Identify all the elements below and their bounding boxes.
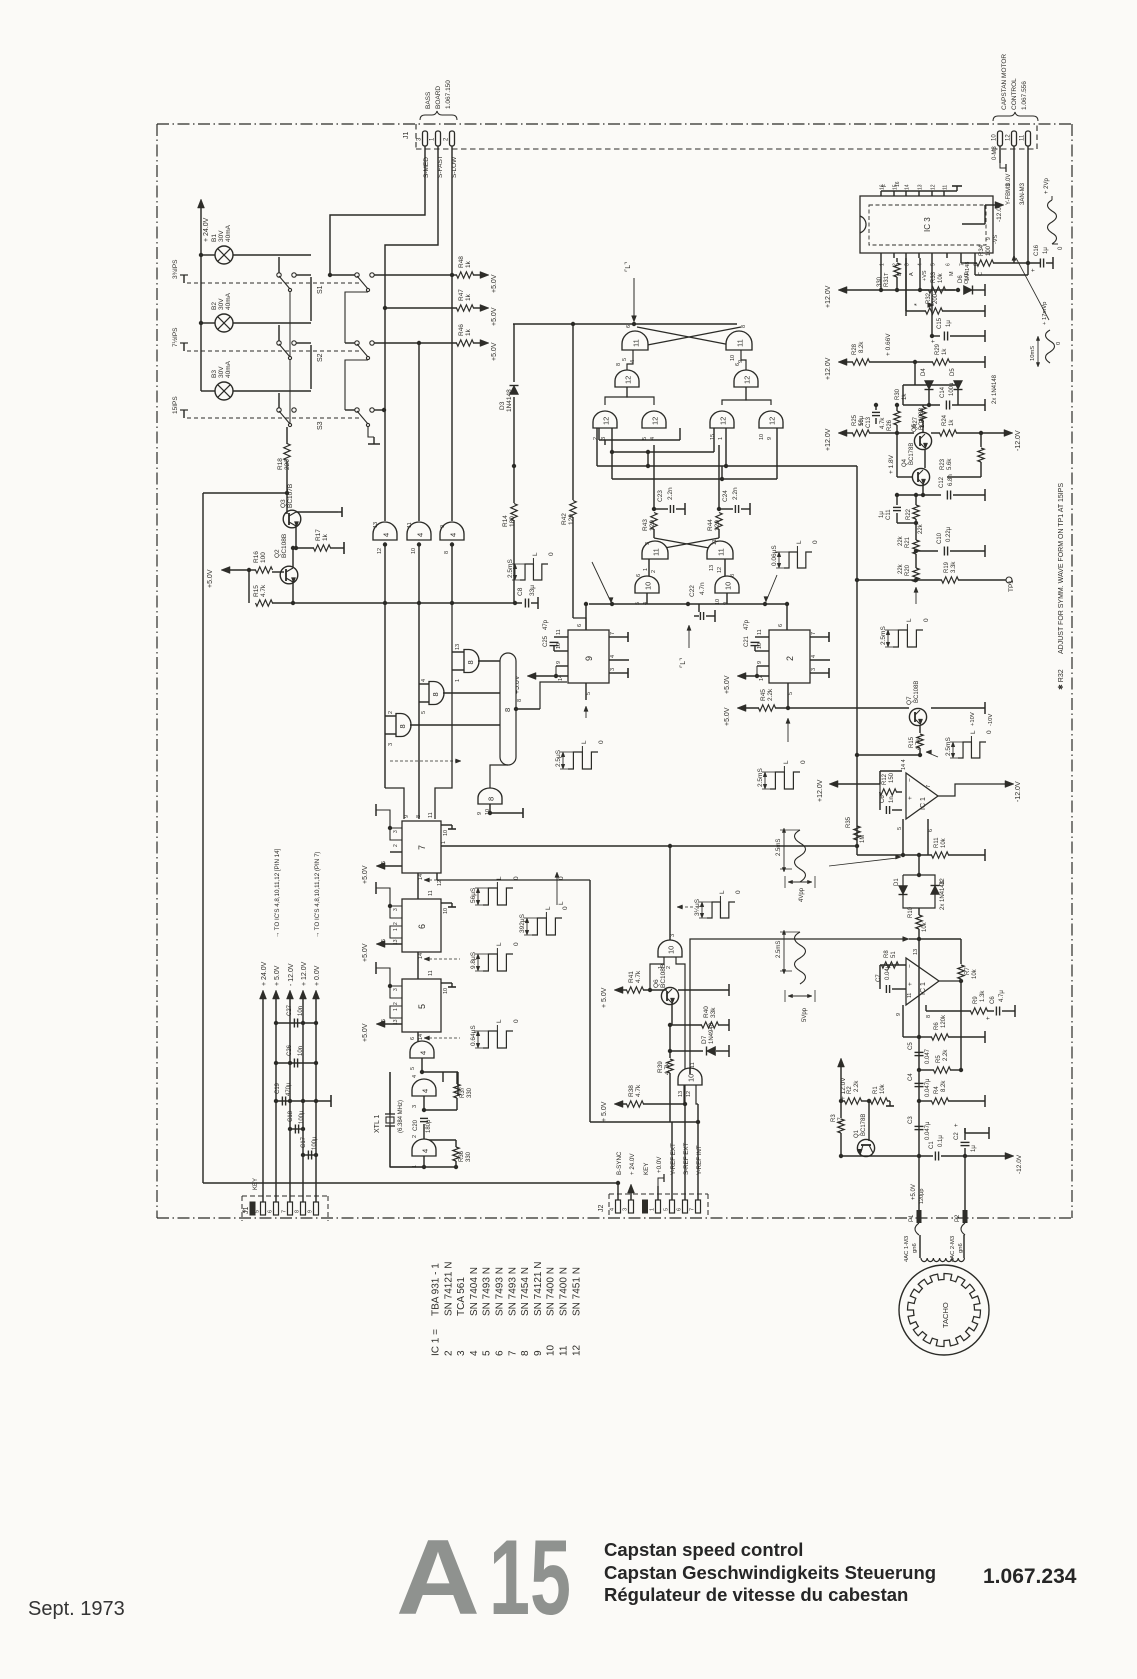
annotation arrow from sine xyxy=(829,858,897,866)
rail crossconnect C26 10n xyxy=(276,1062,316,1064)
capacitor C16 1u xyxy=(1039,259,1041,268)
bottom circuit rail xyxy=(203,1182,618,1184)
svg-text:Régulateur de vitesse du cabes: Régulateur de vitesse du cabestan xyxy=(604,1584,908,1605)
svg-text:Q3: Q3 xyxy=(280,499,287,508)
mesh wire h1 xyxy=(598,428,600,440)
svg-text:11: 11 xyxy=(652,548,661,556)
gate IC8b xyxy=(419,683,429,685)
R3 47 xyxy=(840,1101,842,1118)
cross-coupled NAND pair IC11 xyxy=(622,331,648,350)
wire J1-1 S-FAST xyxy=(385,146,438,521)
svg-text:4AC 1-M3: 4AC 1-M3 xyxy=(904,1236,910,1262)
opamp input wires down xyxy=(902,819,904,855)
gate inputs xyxy=(683,1085,685,1104)
svg-text:L: L xyxy=(545,906,552,910)
svg-text:R24: R24 xyxy=(942,414,948,426)
waveform 56uS xyxy=(483,888,513,905)
svg-text:⌜L⌝: ⌜L⌝ xyxy=(679,658,687,668)
svg-text:6: 6 xyxy=(417,924,427,929)
svg-text:10: 10 xyxy=(667,946,676,954)
svg-text:1.067.234: 1.067.234 xyxy=(983,1565,1077,1588)
svg-text:C13: C13 xyxy=(866,416,872,428)
svg-text:0.64μS: 0.64μS xyxy=(470,1025,477,1046)
svg-text:1k: 1k xyxy=(465,328,472,336)
IC2 pin6 top xyxy=(786,604,788,630)
svg-text:J1: J1 xyxy=(403,132,410,140)
IC7 pin14 bottom xyxy=(417,873,419,880)
R22 22k xyxy=(913,505,919,519)
svg-text:2: 2 xyxy=(443,1350,454,1356)
svg-text:R21: R21 xyxy=(905,536,911,548)
svg-text:BC108B: BC108B xyxy=(660,964,667,988)
svg-text:180p: 180p xyxy=(426,1119,432,1133)
capacitor C23 2.2n xyxy=(653,445,655,509)
svg-text:BC108B: BC108B xyxy=(281,534,288,558)
svg-text:4: 4 xyxy=(416,533,425,537)
svg-text:D4: D4 xyxy=(921,368,927,376)
svg-text:(6.384 MHz): (6.384 MHz) xyxy=(398,1100,404,1133)
IC7 pin1 long wire right xyxy=(441,845,857,847)
IC7 pin12 bottom right xyxy=(436,873,438,880)
IC5 SN7493 xyxy=(402,979,441,1032)
svg-text:1k: 1k xyxy=(465,293,472,301)
svg-text:40mA: 40mA xyxy=(225,360,232,378)
svg-text:+ 2Vp: + 2Vp xyxy=(1044,177,1050,194)
svg-text:120: 120 xyxy=(568,514,575,525)
svg-text:8: 8 xyxy=(520,1350,531,1356)
svg-text:12: 12 xyxy=(651,417,660,425)
wire gate4b output down xyxy=(418,605,420,819)
svg-text:100μ: 100μ xyxy=(299,1110,305,1124)
2.5mS pulse sketch left xyxy=(520,564,548,580)
svg-text:C27: C27 xyxy=(287,1004,293,1016)
dashed annotation arrow xyxy=(390,760,456,762)
svg-text:22k: 22k xyxy=(898,563,904,574)
svg-text:4: 4 xyxy=(412,1075,418,1078)
svg-text:5: 5 xyxy=(255,1210,261,1213)
svg-text:9: 9 xyxy=(477,812,483,815)
svg-text:4.7k: 4.7k xyxy=(880,417,886,429)
svg-text:4.7k: 4.7k xyxy=(916,738,922,750)
lower rail xyxy=(589,603,787,605)
svg-text:⌜L⌝: ⌜L⌝ xyxy=(624,262,632,272)
svg-text:8: 8 xyxy=(295,1210,301,1213)
wire P2 xyxy=(964,1156,966,1210)
svg-text:3.3k: 3.3k xyxy=(951,561,957,573)
gate in/out wires xyxy=(650,957,664,990)
svg-text:14: 14 xyxy=(418,953,424,959)
svg-text:R29: R29 xyxy=(935,343,941,355)
svg-text:13: 13 xyxy=(678,1091,684,1097)
svg-text:+ 24.0V: + 24.0V xyxy=(629,1153,636,1175)
svg-text:ADJUST FOR SYMM. WAVE FORM ON: ADJUST FOR SYMM. WAVE FORM ON TP1 AT 15I… xyxy=(1058,483,1065,654)
IC3 top pins to ground rail xyxy=(880,191,882,196)
svg-text:2: 2 xyxy=(593,437,599,440)
svg-text:6: 6 xyxy=(677,1208,683,1211)
svg-text:0.1μ: 0.1μ xyxy=(938,1135,944,1147)
wire P1 xyxy=(918,1156,920,1210)
svg-text:C23: C23 xyxy=(657,490,664,502)
svg-text:2: 2 xyxy=(388,711,394,714)
C1 0.1u series xyxy=(934,1152,936,1161)
svg-text:8: 8 xyxy=(444,551,450,554)
svg-text:12: 12 xyxy=(719,417,728,425)
svg-text:10: 10 xyxy=(757,643,763,649)
wire gate4c output down xyxy=(435,605,452,819)
R20 22k xyxy=(913,568,919,582)
+24.0V supply arrow xyxy=(200,205,202,255)
svg-text:11: 11 xyxy=(1020,134,1026,141)
svg-text:R17: R17 xyxy=(315,529,322,541)
svg-text:9: 9 xyxy=(404,815,410,818)
svg-text:4AC 2-M3: 4AC 2-M3 xyxy=(950,1236,956,1262)
svg-text:3: 3 xyxy=(811,668,817,671)
svg-text:C2: C2 xyxy=(954,1132,960,1140)
svg-text:R32: R32 xyxy=(926,292,932,304)
wire gate4a output down to IC8/IC7 xyxy=(384,605,386,788)
C10 0.22u row xyxy=(914,549,918,553)
svg-text:-12.0V: -12.0V xyxy=(1016,1154,1023,1174)
tacho pickup coil xyxy=(919,1235,921,1258)
svg-text:10: 10 xyxy=(992,134,998,141)
svg-text:L: L xyxy=(796,540,803,544)
Q3 collector to ground xyxy=(296,511,338,513)
svg-text:0.047μ: 0.047μ xyxy=(925,1078,931,1097)
R32 200 trimmer row xyxy=(905,258,907,311)
+12.0V arrow Q1 bias xyxy=(838,1058,845,1067)
R19 3.3k TP1 xyxy=(916,579,942,581)
svg-text:2x 1N4148: 2x 1N4148 xyxy=(992,374,998,404)
input wires xyxy=(902,1005,904,1011)
sine 2.5mS 5Vpp sketch xyxy=(795,932,806,984)
transistor Q3 BC107B xyxy=(286,493,288,514)
svg-text:Y-REF EXT: Y-REF EXT xyxy=(670,1143,677,1175)
svg-text:1k: 1k xyxy=(902,393,908,400)
svg-text:1: 1 xyxy=(455,679,461,682)
resistor R7 10k xyxy=(958,965,964,979)
diode D7 1N4948 xyxy=(669,1025,671,1051)
svg-text:L: L xyxy=(496,876,503,880)
svg-text:10n: 10n xyxy=(298,1046,304,1056)
osc bottom rail xyxy=(423,1156,425,1167)
svg-text:C3: C3 xyxy=(908,1116,914,1124)
svg-text:KEY: KEY xyxy=(253,1178,259,1190)
svg-text:9: 9 xyxy=(440,525,446,528)
svg-text:+ 5.0V: + 5.0V xyxy=(601,1101,608,1122)
svg-text:30V: 30V xyxy=(218,230,225,242)
svg-text:2.2n: 2.2n xyxy=(732,487,739,500)
gate IC4b pin 10/11 xyxy=(407,522,431,540)
svg-text:12: 12 xyxy=(1006,134,1012,141)
svg-text:A: A xyxy=(909,272,915,276)
fanout wires xyxy=(605,387,627,405)
svg-text:R45: R45 xyxy=(760,689,767,701)
svg-text:L: L xyxy=(496,1019,503,1023)
svg-text:+5.0V: +5.0V xyxy=(491,274,498,293)
IC2 right pins xyxy=(810,636,826,638)
svg-text:0: 0 xyxy=(923,618,930,622)
svg-text:10k: 10k xyxy=(941,837,947,848)
svg-text:→ TO IC'S 4,8,10,11,12 (PIN: → TO IC'S 4,8,10,11,12 (PIN 7) xyxy=(314,852,321,938)
svg-text:XTL 1: XTL 1 xyxy=(374,1114,381,1133)
svg-text:5: 5 xyxy=(482,1350,493,1356)
svg-text:S3: S3 xyxy=(317,421,324,430)
svg-text:SN 7400 N: SN 7400 N xyxy=(546,1267,557,1316)
svg-text:R16: R16 xyxy=(253,551,260,563)
svg-text:5: 5 xyxy=(410,1067,416,1070)
svg-text:C8: C8 xyxy=(517,587,524,596)
svg-text:gn6: gn6 xyxy=(958,1243,964,1253)
wire Q2 emitter rail xyxy=(272,602,522,604)
cross-coupled NAND pair IC11 lower xyxy=(642,541,668,559)
svg-text:12: 12 xyxy=(686,1091,692,1097)
svg-text:0: 0 xyxy=(548,552,555,556)
waveform arrow xyxy=(915,590,917,604)
svg-text:P2: P2 xyxy=(955,1214,961,1222)
svg-text:3: 3 xyxy=(412,1105,418,1108)
svg-text:F: F xyxy=(882,184,888,187)
svg-text:8: 8 xyxy=(517,699,523,702)
svg-text:100: 100 xyxy=(986,245,992,256)
svg-text:5: 5 xyxy=(421,711,427,714)
R24 1k to -12V xyxy=(931,432,940,434)
J2 signal labels xyxy=(617,1183,619,1200)
svg-text:R18: R18 xyxy=(277,458,284,470)
svg-text:SN 74121 N: SN 74121 N xyxy=(443,1262,454,1316)
svg-text:3: 3 xyxy=(456,1350,467,1356)
svg-text:SN 7451 N: SN 7451 N xyxy=(571,1267,582,1316)
svg-text:S-REF EXT: S-REF EXT xyxy=(683,1142,690,1175)
-12.0V arrow pin9 xyxy=(984,205,986,224)
svg-text:R19: R19 xyxy=(944,561,950,573)
svg-text:IC 1: IC 1 xyxy=(920,797,927,810)
svg-text:R26: R26 xyxy=(887,419,893,431)
svg-text:30V: 30V xyxy=(218,298,225,310)
svg-text:11: 11 xyxy=(907,993,913,998)
svg-text:1N4148: 1N4148 xyxy=(506,389,513,412)
svg-text:L: L xyxy=(719,890,726,894)
tacho gear wheel xyxy=(899,1265,989,1355)
svg-text:D3: D3 xyxy=(499,401,506,410)
C5 0.047 xyxy=(915,1051,924,1053)
svg-text:R44: R44 xyxy=(707,519,714,531)
lamp B3 30V 40mA xyxy=(215,382,233,400)
svg-text:R28: R28 xyxy=(852,343,858,355)
wire pin11 3AN-M3 xyxy=(1027,146,1029,263)
R29 1k row xyxy=(913,360,917,364)
svg-text:1: 1 xyxy=(393,1008,399,1011)
IC9 SN74121 xyxy=(568,630,609,683)
svg-text:+VS: +VS xyxy=(922,270,928,281)
gate IC10d xyxy=(678,1068,702,1085)
IC9 pin6 top xyxy=(585,604,587,630)
svg-text:1N4948: 1N4948 xyxy=(709,1022,715,1044)
IC7 pin5 +5V xyxy=(380,865,402,867)
connector J2 bottom xyxy=(609,1193,708,1195)
C14 100u row xyxy=(903,404,940,406)
svg-text:R41: R41 xyxy=(628,971,635,983)
svg-text:0: 0 xyxy=(812,540,819,544)
R23 5.6k xyxy=(979,431,983,435)
svg-text:Q2: Q2 xyxy=(274,549,281,558)
svg-text:R30: R30 xyxy=(895,388,901,400)
bass board dashed boundary xyxy=(416,148,1037,150)
svg-text:11: 11 xyxy=(717,548,726,556)
resistor R42 120 xyxy=(570,501,576,518)
svg-text:3: 3 xyxy=(670,934,676,937)
IC9 right pins xyxy=(609,636,625,638)
svg-text:Capstan speed control: Capstan speed control xyxy=(604,1539,803,1560)
svg-text:1μ: 1μ xyxy=(1043,247,1049,254)
wire to gate 11 pin xyxy=(418,343,420,521)
+5.0V arrow xyxy=(226,569,249,571)
svg-text:1M: 1M xyxy=(860,835,866,843)
switch S1 left half xyxy=(278,257,280,273)
svg-text:6: 6 xyxy=(946,263,952,266)
R27 1.5k xyxy=(920,407,926,421)
svg-text:1k: 1k xyxy=(949,419,955,426)
svg-text:+5.0V: +5.0V xyxy=(491,307,498,326)
sine 2.5mS 4Vpp sketch xyxy=(795,830,806,882)
IC3 package outline xyxy=(860,196,993,253)
svg-text:R15: R15 xyxy=(253,585,260,597)
gate IC8c xyxy=(452,651,464,653)
+5V rail with R45 xyxy=(737,705,746,712)
svg-text:R2: R2 xyxy=(847,1086,853,1094)
svg-text:-10V: -10V xyxy=(988,714,994,726)
transistor Q1 BC178B xyxy=(868,1101,870,1141)
svg-text:11: 11 xyxy=(736,339,745,347)
svg-text:+: + xyxy=(986,1016,992,1020)
svg-text:KEY: KEY xyxy=(643,1163,650,1175)
svg-text:+12.0V: +12.0V xyxy=(825,285,832,308)
svg-text:TBA 931 - 1: TBA 931 - 1 xyxy=(431,1263,442,1316)
svg-text:14: 14 xyxy=(558,675,564,681)
C13 10u xyxy=(872,411,880,413)
svg-text:7: 7 xyxy=(417,845,427,850)
svg-text:L: L xyxy=(783,760,790,764)
svg-text:10n: 10n xyxy=(298,1006,304,1016)
svg-text:TCA 561: TCA 561 xyxy=(456,1277,467,1316)
svg-text:2: 2 xyxy=(785,656,795,661)
svg-text:14: 14 xyxy=(418,874,424,880)
svg-text:+ 12.0V: + 12.0V xyxy=(301,961,308,986)
svg-text:R14: R14 xyxy=(502,515,509,527)
svg-text:5.6k: 5.6k xyxy=(947,458,953,470)
svg-text:4: 4 xyxy=(610,655,616,658)
gate IC12 row A xyxy=(593,411,617,428)
OUT pin7 wire R34 100 xyxy=(960,258,962,263)
svg-text:2.2k: 2.2k xyxy=(943,1049,949,1061)
IC2 SN74121 xyxy=(769,630,810,683)
IC3 bottom pins xyxy=(880,253,882,258)
wire to IC9 pin6 xyxy=(573,618,586,629)
svg-text:C15: C15 xyxy=(937,317,943,329)
svg-text:R4: R4 xyxy=(934,1086,940,1094)
pin8 wire xyxy=(974,258,976,275)
svg-text:2.5mS: 2.5mS xyxy=(776,839,782,856)
svg-text:R34: R34 xyxy=(979,244,985,256)
svg-text:1μ: 1μ xyxy=(971,1145,977,1152)
gate IC4c pin 9/8 xyxy=(440,522,464,540)
resistor R41 4.7k +5V xyxy=(614,987,623,994)
svg-text:11: 11 xyxy=(556,629,562,635)
sine +2Vp xyxy=(1048,200,1057,244)
svg-text:2x 1N4148: 2x 1N4148 xyxy=(940,880,946,910)
waveform 3.25uS xyxy=(707,902,735,918)
gate IC4f osc xyxy=(424,1139,456,1141)
svg-text:BC108B: BC108B xyxy=(919,408,925,430)
row wire S2 / resistor R46 1k to +5.0V xyxy=(374,342,457,344)
svg-text:6: 6 xyxy=(495,1350,506,1356)
svg-text:4: 4 xyxy=(382,533,391,537)
svg-text:→ TO IC'S 4,8,10,11,12 [PIN: → TO IC'S 4,8,10,11,12 [PIN 14] xyxy=(274,848,281,938)
resistor R17 1k to ground xyxy=(296,547,314,549)
output to R7 node xyxy=(939,980,961,982)
svg-text:11: 11 xyxy=(943,185,949,190)
feedback C7 0.04u xyxy=(885,985,887,993)
brace BASS BOARD xyxy=(420,111,457,120)
svg-text:6: 6 xyxy=(928,829,934,832)
svg-text:7: 7 xyxy=(690,1208,696,1211)
svg-text:B1: B1 xyxy=(211,234,218,242)
svg-text:R22: R22 xyxy=(906,508,912,520)
svg-text:C6: C6 xyxy=(880,795,886,803)
svg-text:3¼μS: 3¼μS xyxy=(694,898,701,916)
svg-text:B2: B2 xyxy=(211,302,218,310)
svg-text:C25: C25 xyxy=(543,635,549,647)
svg-text:A: A xyxy=(396,1517,480,1637)
oscillator loop box xyxy=(390,1072,422,1167)
svg-text:D1: D1 xyxy=(894,878,900,886)
svg-text:9.8μS: 9.8μS xyxy=(470,951,477,969)
capacitor C22 4.7n xyxy=(698,604,700,612)
speed select dashed line 3 3/4 IPS xyxy=(187,282,360,284)
svg-text:4.7k: 4.7k xyxy=(664,1062,671,1075)
cross wires lower pair xyxy=(654,538,726,551)
svg-text:+: + xyxy=(907,796,914,800)
long vertical feedback wire xyxy=(856,466,858,855)
bottom rail to -12V xyxy=(841,1155,933,1157)
svg-text:B-SYNC: B-SYNC xyxy=(616,1151,623,1175)
svg-text:9: 9 xyxy=(584,656,594,661)
svg-text:R12: R12 xyxy=(882,773,888,785)
switch S3 left half xyxy=(278,393,280,408)
wire long left rail xyxy=(202,493,204,1183)
gate outputs to rail xyxy=(646,593,648,604)
svg-text:15: 15 xyxy=(489,1517,571,1637)
resistor R18 220 xyxy=(286,427,288,444)
svg-text:10: 10 xyxy=(546,1344,557,1356)
svg-text:R5: R5 xyxy=(936,1055,942,1063)
svg-text:470μ: 470μ xyxy=(286,1082,292,1096)
svg-text:33μ: 33μ xyxy=(529,585,536,596)
svg-text:4.7k: 4.7k xyxy=(260,584,267,597)
svg-text:12: 12 xyxy=(377,548,383,554)
resistor R43 120 xyxy=(651,513,657,530)
svg-text:0: 0 xyxy=(598,740,605,744)
svg-text:C18: C18 xyxy=(288,1110,294,1122)
svg-text:8: 8 xyxy=(466,660,475,664)
svg-text:14 4: 14 4 xyxy=(901,759,907,770)
capacitor C20 180p xyxy=(420,1117,428,1119)
svg-text:13: 13 xyxy=(455,644,461,650)
resistor R38 4.7k +5V xyxy=(614,1101,623,1108)
svg-text:5: 5 xyxy=(788,692,794,695)
svg-text:9: 9 xyxy=(533,1350,544,1356)
svg-text:0: 0 xyxy=(513,942,520,946)
svg-text:0.22μ: 0.22μ xyxy=(946,526,952,542)
